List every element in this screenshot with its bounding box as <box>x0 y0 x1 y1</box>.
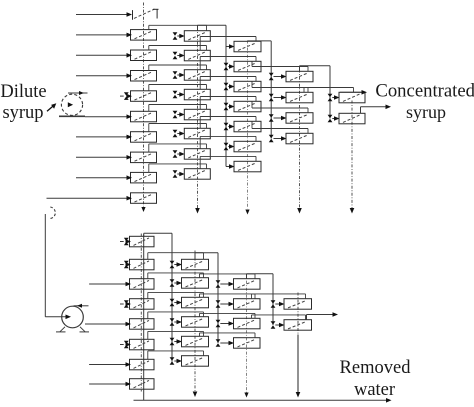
pump P2 <box>56 304 89 332</box>
membrane module B2-2 <box>182 278 209 289</box>
valve/arrow on bus B23 feeding module T3-1 <box>226 44 235 49</box>
valve on bus B12b feeding module B2-2 <box>170 279 182 287</box>
svg-text:water: water <box>354 380 395 400</box>
wire retentate elbow module T2-1 to bus B23 <box>198 25 227 31</box>
wire feed arrow into module T1-4 <box>76 73 132 78</box>
wire downcomer to pump P2 <box>45 214 71 319</box>
membrane module T1-1 (open) <box>133 9 159 20</box>
svg-text:syrup: syrup <box>406 102 446 122</box>
valve on feed of module B1-2 <box>120 261 131 269</box>
valve on feed of module B1-1 <box>120 238 131 246</box>
valve on bus B45 feeding module T5-2 <box>328 115 340 123</box>
membrane module T3-2 <box>234 61 261 72</box>
wire pump P2 outlet feed to module B1-5 <box>85 322 131 327</box>
wire recycle from module T3-7 to module T2-8 <box>200 156 256 168</box>
wire recycle from module B3-4 to module B2-5 <box>200 333 256 338</box>
wire bus B23b <box>217 253 219 343</box>
membrane module T2-2 <box>184 50 210 61</box>
wire permeate centerline column T2 <box>195 28 200 214</box>
wire permeate centerline column B3 <box>244 274 248 398</box>
membrane module B1-5 <box>130 319 155 330</box>
valve on bus B12b feeding module B2-5 <box>170 338 182 346</box>
membrane module B3-2 <box>234 299 261 310</box>
wire recycle from module T4-3 to module T3-4 <box>252 101 308 112</box>
membrane module T2-3 <box>184 70 210 81</box>
wire recycle from module B3-2 to module B2-3 <box>200 294 256 299</box>
membrane module T4-2 <box>286 92 313 103</box>
wire recycle from module T4-1 to module T3-2 <box>252 61 308 71</box>
membrane module B1-6 <box>130 339 155 350</box>
membrane module B4-1 <box>284 299 312 310</box>
membrane module T2-7 <box>184 149 210 160</box>
valve on bus B23b feeding module B3-3 <box>216 320 234 328</box>
wire recycle from module B4-1 to module B3-2 <box>252 294 306 299</box>
wire permeate centerline column T4 <box>297 70 302 214</box>
wire bus B23 <box>225 25 227 166</box>
wire recycle from module T2-3 to module T1-4 <box>149 65 207 71</box>
membrane module T4-3 <box>286 113 313 124</box>
wire feed arrow into module B1-7 <box>89 362 131 367</box>
wire recycle from module T2-4 to module T1-5 <box>149 85 207 91</box>
wire recycle from module B3-3 to module B2-4 <box>200 313 256 318</box>
membrane module T1-4 <box>131 71 157 82</box>
wire recycle from module T2-6 to module T1-7 <box>149 124 207 132</box>
wire permeate centerline column T5 <box>350 101 355 214</box>
wire retentate collection line column B1 <box>143 235 145 401</box>
membrane module B1-7 <box>130 359 155 370</box>
membrane module T1-6 <box>131 111 157 122</box>
wire feed arrow into module B1-3 <box>89 282 131 287</box>
membrane module T3-4 <box>234 101 261 112</box>
wire permeate centerline column B2 <box>193 251 198 398</box>
membrane module T1-7 <box>131 132 157 143</box>
valve on bus B34 feeding module T4-2 <box>269 94 287 102</box>
wire recycle from module T5-1 to module T4-2 <box>304 88 354 93</box>
valve/arrow on bus B23 feeding module T3-4 <box>224 103 235 111</box>
wire recycle from module T3-4 to module T2-5 <box>200 97 256 110</box>
valve on bus B45 feeding module T5-1 <box>328 94 340 102</box>
membrane module B1-2 <box>130 259 155 270</box>
wire bus B45 <box>329 66 331 119</box>
wire feed arrow into module T1-1 <box>76 12 132 17</box>
valve V12-1 feeding module T2-1 <box>173 32 185 40</box>
wire retentate elbow module B3-1 to bus B34b <box>247 274 274 279</box>
membrane module B4-2 <box>284 320 312 331</box>
svg-text:Dilute: Dilute <box>0 82 46 102</box>
membrane module B1-3 <box>130 279 155 290</box>
membrane module T2-4 <box>184 89 210 100</box>
wire recycle from module T3-2 to module T2-3 <box>200 57 256 70</box>
membrane module T3-6 <box>234 141 261 152</box>
valve on bus B12b feeding module B2-6 <box>170 357 182 365</box>
valve on feed of module B1-4 <box>120 300 131 308</box>
wire recycle loop hop to stage 2 <box>50 207 55 219</box>
membrane module T2-6 <box>184 128 210 139</box>
membrane module T3-5 <box>234 121 261 132</box>
valve on bus B34b feeding module B4-1 <box>271 300 285 308</box>
membrane module T2-1 <box>184 31 210 42</box>
wire retentate elbow module T3-1 to bus B34 <box>248 40 272 43</box>
membrane module T1-8 <box>131 152 157 163</box>
membrane module B3-3 <box>234 318 261 329</box>
wire recycle from module B4-2 to module B3-3 <box>252 315 306 320</box>
valve on bus B12b feeding module B2-1 <box>170 261 182 269</box>
wire recycle from module T2-7 to module T1-8 <box>149 144 207 152</box>
wire recycle from module B2-4 to module B1-5 <box>148 312 204 319</box>
wire permeate centerline column T1 <box>141 3 145 213</box>
wire retentate elbow module B1-1 to bus B12b <box>144 233 172 236</box>
wire bus B12b <box>171 233 173 361</box>
membrane module T4-1 <box>286 71 313 82</box>
wire permeate centerline column T3 <box>245 41 249 215</box>
membrane module T3-7 <box>234 161 261 172</box>
wire feed arrow into module T1-3 <box>76 53 132 58</box>
wire recycle from module T4-4 to module T3-5 <box>252 121 308 133</box>
wire product arrow from module T5-1 <box>340 90 367 95</box>
membrane module B2-6 <box>182 356 209 367</box>
membrane module T2-5 <box>184 109 210 120</box>
membrane module T5-1 <box>339 92 365 103</box>
valve on bus B23b feeding module B3-4 <box>216 339 234 347</box>
valve on feed of module T1-5 <box>120 92 132 100</box>
wire recycle from module B2-5 to module B1-6 <box>148 331 204 339</box>
valve/arrow on bus B23 feeding module T3-7 <box>226 164 235 169</box>
valve on bus B34 feeding module T4-4 <box>269 135 287 143</box>
valve/arrow on bus B23 feeding module T3-3 <box>224 83 235 91</box>
wire recycle feed line into module T1-10 <box>47 196 133 201</box>
valve on bus B34b feeding module B4-2 <box>271 321 285 329</box>
pump P1 <box>59 91 88 116</box>
valve on bus B12b feeding module B2-4 <box>170 318 182 326</box>
valve on bus B12b feeding module B2-3 <box>170 299 182 307</box>
label Removed water <box>340 358 412 400</box>
wire retentate elbow module T4-1 to bus B45 <box>300 66 331 72</box>
wire feed arrow into module T1-2 <box>76 33 132 38</box>
membrane module T4-4 <box>286 133 313 144</box>
wire recycle from module T2-2 to module T1-3 <box>149 46 207 51</box>
wire feed arrow into module T1-8 <box>76 155 132 160</box>
wire recycle from module T3-3 to module T2-4 <box>200 77 256 90</box>
membrane module T1-2 <box>131 30 157 40</box>
wire feed arrow into module T1-9 <box>76 175 132 180</box>
membrane module T5-2 <box>339 113 365 124</box>
wire pointer arrow from label to pump P1 <box>47 103 56 111</box>
wire recycle from module T2-8 to module T1-9 <box>149 164 207 173</box>
wire recycle from module T2-5 to module T1-6 <box>149 105 207 112</box>
membrane module B1-8 <box>130 379 155 390</box>
svg-text:syrup: syrup <box>2 103 43 123</box>
wire product arrow from module T5-2 <box>361 105 392 114</box>
wire recycle from module T3-1 to module T2-2 <box>200 37 256 51</box>
membrane module T2-8 <box>184 169 210 180</box>
valve/arrow on bus B23 feeding module T3-6 <box>224 143 235 151</box>
valve V12-3 feeding module T2-3 <box>173 71 185 79</box>
valve/arrow on bus B23 feeding module T3-5 <box>224 123 235 131</box>
wire feed arrow into module B1-8 <box>89 382 131 387</box>
valve on bus B34 feeding module T4-1 <box>269 73 287 81</box>
valve V12-4 feeding module T2-4 <box>173 91 185 99</box>
valve/arrow on bus B23 feeding module T3-2 <box>224 63 235 71</box>
svg-text:Removed: Removed <box>340 358 412 378</box>
svg-text:Concentrated: Concentrated <box>375 81 474 102</box>
wire permeate centerline column B4 <box>296 293 301 398</box>
wire recycle from module T4-2 to module T3-3 <box>252 81 308 92</box>
membrane module B3-4 <box>234 338 261 349</box>
wire recycle from module B3-1 to module B2-2 <box>200 274 256 279</box>
wire product arrow from module B4-2 <box>307 312 339 320</box>
membrane module T1-5 <box>131 91 157 102</box>
valve V12-7 feeding module T2-7 <box>173 150 185 158</box>
wire bus B34b <box>272 274 274 325</box>
membrane module B3-1 <box>234 279 261 290</box>
wire recycle from module B2-2 to module B1-3 <box>148 273 204 279</box>
membrane module T3-3 <box>234 81 261 92</box>
wire recycle from module B2-6 to module B1-7 <box>148 351 204 359</box>
wire permeate centerline column B1 <box>140 234 142 392</box>
valve V12-2 feeding module T2-2 <box>173 52 185 60</box>
wire recycle from module T3-6 to module T2-7 <box>200 136 256 148</box>
membrane module B1-1 <box>130 236 155 247</box>
wire feed arrow into module T1-7 <box>76 135 132 140</box>
valve V12-8 feeding module T2-8 <box>173 170 185 178</box>
valve on bus B23b feeding module B3-1 <box>216 280 234 288</box>
valve on bus B23b feeding module B3-2 <box>216 300 234 308</box>
wire removed water collection line <box>134 398 392 403</box>
membrane module B2-5 <box>182 336 209 347</box>
valve V12-6 feeding module T2-6 <box>173 130 185 138</box>
membrane module B1-4 <box>130 299 155 310</box>
wire recycle from module B2-3 to module B1-4 <box>148 292 204 298</box>
wire retentate elbow module B2-1 to bus B23b <box>195 253 218 260</box>
membrane module B2-4 <box>182 317 209 328</box>
membrane module T1-10 <box>131 193 157 204</box>
valve on feed of module B1-6 <box>120 341 131 349</box>
valve V12-5 feeding module T2-5 <box>173 111 185 119</box>
membrane module T1-9 <box>131 172 157 183</box>
wire recycle from module T3-5 to module T2-6 <box>200 117 256 129</box>
membrane module T1-3 <box>131 50 157 61</box>
valve on bus B34 feeding module T4-3 <box>269 114 287 122</box>
label Concentrated syrup <box>375 81 474 123</box>
membrane module B2-3 <box>182 297 209 308</box>
label Dilute syrup <box>0 82 46 123</box>
membrane module B2-1 <box>182 259 209 270</box>
wire pump P1 outlet feed to module T1-6 <box>85 114 132 119</box>
wire bus B34 <box>270 41 272 139</box>
wire recycle from module B2-1 to module B1-2 <box>148 253 204 260</box>
wire recycle from module T2-1 to module T1-2 <box>149 25 207 30</box>
membrane module T3-1 <box>234 41 261 52</box>
